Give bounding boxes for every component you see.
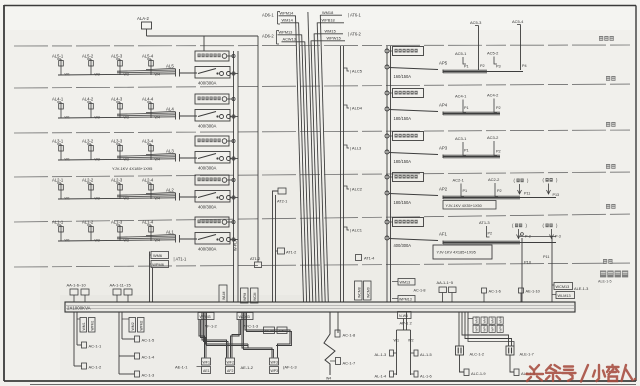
svg-text:WPM6: WPM6 <box>152 262 164 267</box>
svg-text:ALE-1-3: ALE-1-3 <box>574 286 588 291</box>
svg-text:WM8: WM8 <box>499 316 503 323</box>
fuse circle bottom AP4 <box>385 107 389 111</box>
svg-text:AC-1-5: AC-1-5 <box>142 338 155 343</box>
svg-text:AE-1-1: AE-1-1 <box>175 365 188 370</box>
svg-text:AP-1 2: AP-1 2 <box>400 321 413 326</box>
svg-text:AL1: AL1 <box>166 230 174 235</box>
svg-text:| AT1-1: | AT1-1 <box>174 257 188 262</box>
svg-text:WPM14: WPM14 <box>280 11 295 16</box>
svg-text:AA-1-1~5: AA-1-1~5 <box>437 280 454 285</box>
floor label 三层 <box>606 164 610 169</box>
svg-text:AL4-4: AL4-4 <box>142 97 154 102</box>
svg-text:WPM13: WPM13 <box>399 298 412 302</box>
cable tag WCM3 <box>237 313 253 320</box>
svg-text:W1: W1 <box>394 339 400 343</box>
svg-text:W4: W4 <box>155 197 160 201</box>
cable note box AP2 (YJV-1KV 4X35+1X50) <box>443 201 496 210</box>
breaker AL4 <box>195 110 230 122</box>
cable tag WCM9 (rotated) <box>364 281 372 300</box>
svg-text:AL1-4: AL1-4 <box>142 220 154 225</box>
cable tag WPM13 <box>398 296 415 303</box>
svg-text:WCM9: WCM9 <box>367 287 371 298</box>
feeder ALA-2 box <box>142 22 152 29</box>
svg-text:180/150A: 180/150A <box>394 200 412 205</box>
svg-text:AL-1-3: AL-1-3 <box>375 352 387 357</box>
breaker AL1 <box>195 233 230 245</box>
svg-text:400/300A: 400/300A <box>198 81 217 86</box>
svg-text:AA-1-11~15: AA-1-11~15 <box>110 283 132 288</box>
svg-text:180/150A: 180/150A <box>394 159 412 164</box>
svg-text:400/300A: 400/300A <box>198 124 217 129</box>
meter box AF1 (节管暗敷) <box>393 218 424 227</box>
svg-text:AT2-1: AT2-1 <box>277 199 287 204</box>
wire bundle AP4 <box>443 113 500 115</box>
svg-text:AL-1-5: AL-1-5 <box>420 352 432 357</box>
fuse circle top AP5 <box>385 49 389 53</box>
svg-text:WLM13: WLM13 <box>558 294 571 298</box>
fuse circle bottom AP3 <box>385 150 389 154</box>
svg-text:P1: P1 <box>464 149 469 153</box>
meter box AL3 (穿管暗敷口) <box>195 136 229 146</box>
svg-text:AL3-4: AL3-4 <box>142 139 154 144</box>
central riser bundle (9 feeders) <box>296 16 304 303</box>
cable tag WPM3 <box>198 313 214 320</box>
fuse circle bottom AP5 <box>385 65 389 69</box>
svg-text:AF1: AF1 <box>439 232 447 237</box>
svg-text:AD6-2: AD6-2 <box>262 34 274 39</box>
floor divider line 4 <box>14 172 634 177</box>
floor divider line 6 <box>14 263 634 267</box>
tap box AT1-2 mid <box>278 248 285 254</box>
wire AL5 to breaker <box>180 72 198 74</box>
fuse circle bottom AF1 <box>385 236 389 240</box>
feeder bundle basement right <box>458 312 460 331</box>
floor label 二层 <box>606 204 610 209</box>
svg-text:AC-1-3: AC-1-3 <box>142 373 155 378</box>
svg-text:P3: P3 <box>496 65 501 69</box>
svg-text:AC4-2: AC4-2 <box>487 93 499 98</box>
svg-text:AC5-3: AC5-3 <box>470 20 482 25</box>
tap box AE-1-10 <box>519 288 524 293</box>
svg-text:AC-1-8: AC-1-8 <box>414 289 426 293</box>
terminal box AT1-2 <box>255 262 262 268</box>
svg-text:AL5: AL5 <box>166 64 174 69</box>
svg-text:AC-1-2: AC-1-2 <box>89 365 102 370</box>
wire bus of AL1 <box>58 240 175 241</box>
svg-text:160/150A: 160/150A <box>394 74 412 79</box>
svg-text:ALC-1-2: ALC-1-2 <box>470 352 485 357</box>
wire ALA-2 horizontal <box>147 35 259 37</box>
svg-text:AC-1-7: AC-1-7 <box>343 361 356 366</box>
svg-text:AL1-1: AL1-1 <box>52 220 64 225</box>
svg-text:AL4-3: AL4-3 <box>111 97 123 102</box>
svg-text:WM1: WM1 <box>82 322 86 330</box>
branch AL-1-4 <box>393 373 397 375</box>
svg-text:AC4-1: AC4-1 <box>455 94 467 99</box>
cable tag WP4 <box>277 327 287 334</box>
svg-text:W4: W4 <box>326 377 331 381</box>
svg-text:WM13: WM13 <box>400 281 411 285</box>
svg-text:AE1: AE1 <box>203 369 210 373</box>
svg-text:AL3-3: AL3-3 <box>111 139 123 144</box>
svg-text:AP5: AP5 <box>439 61 448 66</box>
floor divider line 5 <box>14 214 634 222</box>
junction on riser AL3 <box>232 139 235 142</box>
cable label WPM6 <box>151 261 169 268</box>
nest wiring AF-1-2 <box>199 320 205 358</box>
svg-text:WM6: WM6 <box>153 253 162 258</box>
floor label 地下一层 <box>600 271 606 278</box>
svg-text:ALE-1-7: ALE-1-7 <box>520 352 534 357</box>
cable tag WCM8 (rotated) <box>355 281 363 300</box>
wire bus of AL5 <box>58 74 175 75</box>
breaker AL3 <box>195 152 230 164</box>
cable tag WPM2 (rotated) <box>138 318 145 333</box>
svg-text:WCM3: WCM3 <box>239 315 250 319</box>
svg-text:AC3-1: AC3-1 <box>455 136 467 141</box>
wire bus of AL3 <box>58 159 175 160</box>
svg-text:AA-1-6~10: AA-1-6~10 <box>67 283 87 288</box>
branch AC-1-1 <box>77 344 82 346</box>
branch AC-1-8 <box>337 312 339 333</box>
svg-text:P2: P2 <box>488 232 493 236</box>
svg-text:W2: W2 <box>408 339 414 343</box>
terminal WF2/AF2 <box>226 358 235 365</box>
breaker AL5 <box>195 67 230 79</box>
svg-text:YJV-1KV 4X185+1X95: YJV-1KV 4X185+1X95 <box>112 166 153 171</box>
hook to AT2-1 box <box>273 191 279 195</box>
svg-text:P2: P2 <box>496 150 501 154</box>
wire bundle AP5 <box>443 71 523 73</box>
svg-text:WPW15: WPW15 <box>327 36 341 41</box>
svg-text:WM18: WM18 <box>322 10 333 15</box>
breaker blade AP5 <box>389 68 438 70</box>
svg-text:AL-1-6: AL-1-6 <box>420 374 432 379</box>
branch AL-1-6 <box>411 373 415 375</box>
cable tag WLM13 <box>556 292 575 299</box>
svg-text:AT1-2: AT1-2 <box>250 256 260 261</box>
cable tag WPM1 (rotated) <box>89 318 96 333</box>
svg-text:AL4-1: AL4-1 <box>52 97 64 102</box>
svg-text:AE-1-10: AE-1-10 <box>526 289 541 294</box>
svg-text:180/150A: 180/150A <box>394 116 412 121</box>
wire AL4 to breaker <box>180 115 198 117</box>
svg-text:WCM: WCM <box>253 292 257 301</box>
svg-text:P1: P1 <box>464 106 469 110</box>
svg-text:P2: P2 <box>497 189 502 193</box>
wire AL2 to breaker <box>180 196 198 198</box>
tap box AT1-4 <box>356 255 362 261</box>
wire AF1 tail <box>520 236 556 238</box>
svg-text:AC5-1: AC5-1 <box>455 51 467 56</box>
cable label WM6 <box>151 252 169 259</box>
svg-text:AC5-2: AC5-2 <box>487 51 499 56</box>
svg-text:YJV-1KV 4X185+1X95: YJV-1KV 4X185+1X95 <box>437 250 476 255</box>
floor tap ALL3 <box>344 145 350 148</box>
wire bundle AF1 <box>443 242 556 244</box>
svg-text:P2: P2 <box>480 64 485 68</box>
svg-text:ALE-1-5: ALE-1-5 <box>598 280 612 284</box>
svg-text:P1: P1 <box>463 189 468 193</box>
meter box AL2 (穿管暗敷口) <box>195 175 229 185</box>
cable tag WM1 (rotated) <box>80 318 87 333</box>
svg-text:AL2-3: AL2-3 <box>111 178 123 183</box>
floor divider line 2 <box>14 84 634 88</box>
svg-text:400/300A: 400/300A <box>198 166 217 171</box>
wire ALA-2 drop to AL5 meter box <box>203 36 205 51</box>
svg-text:AL-1-4: AL-1-4 <box>375 374 388 379</box>
svg-text:P11: P11 <box>524 192 530 196</box>
branch AC-1-2 <box>74 365 82 367</box>
svg-text:WP7: WP7 <box>491 325 495 332</box>
svg-text:WM7: WM7 <box>491 316 495 323</box>
meter box AL4 (穿管暗敷口) <box>195 94 229 104</box>
transformer ALE-1-7 <box>462 331 509 346</box>
svg-text:WPM1: WPM1 <box>91 320 95 330</box>
svg-text:WLM: WLM <box>222 292 226 300</box>
border frame <box>3 5 5 381</box>
cable tag grid (WM5..WP8) <box>473 317 479 324</box>
wire P11 riser <box>551 238 553 302</box>
svg-text:AP3: AP3 <box>439 146 448 151</box>
riser AL column pair <box>340 46 342 302</box>
meter box AP3 (节管暗敷) <box>393 132 424 141</box>
riser pair right block <box>386 46 388 302</box>
meter box AP4 (节管暗敷) <box>393 89 424 98</box>
svg-text:W4: W4 <box>155 158 160 162</box>
svg-text:AC-1-4: AC-1-4 <box>142 355 155 360</box>
svg-text:AL2-2: AL2-2 <box>82 178 94 183</box>
svg-text:AD6-1: AD6-1 <box>262 13 274 18</box>
svg-text:| ALC2: | ALC2 <box>350 187 363 192</box>
breaker blade AP4 <box>389 110 438 112</box>
svg-text:WM5: WM5 <box>475 316 479 323</box>
scan shading <box>40 170 600 310</box>
fuse circle top AF1 <box>385 220 389 224</box>
svg-text:P10: P10 <box>524 260 532 265</box>
svg-text:AL4-2: AL4-2 <box>82 97 94 102</box>
wire bundle AP3 <box>443 156 500 158</box>
wire ALA-2 riser down <box>257 36 259 262</box>
floor tap ALD4 <box>344 105 350 108</box>
svg-text:AL3-1: AL3-1 <box>52 139 64 144</box>
svg-text:W4: W4 <box>155 239 160 243</box>
svg-text:| ALD4: | ALD4 <box>350 106 363 111</box>
svg-text:WM2: WM2 <box>131 322 135 330</box>
junction on riser AL5 <box>232 54 235 57</box>
cable note box AF1 (YJV-1KV 4X185+1X95) <box>433 245 492 259</box>
svg-text:400/300A: 400/300A <box>394 243 412 248</box>
svg-text:WCM13: WCM13 <box>556 285 570 289</box>
branch AC-1-3 <box>119 373 135 375</box>
transformer ALC-1-2 <box>458 331 460 346</box>
floor label 五层 <box>606 76 610 81</box>
wire bus of AL4 <box>58 117 175 118</box>
svg-text:YJV-1KV 4X35+1X50: YJV-1KV 4X35+1X50 <box>446 204 482 208</box>
watermark 头条号/小客人 (red) <box>527 365 637 382</box>
riser WPL pair (left breaker bus) <box>233 51 235 302</box>
svg-text:| ALL3: | ALL3 <box>350 146 362 151</box>
meter box AP5 (节管暗敷) <box>393 47 424 56</box>
svg-text:| AT6-1: | AT6-1 <box>348 13 362 18</box>
svg-text:AL2-1: AL2-1 <box>52 178 64 183</box>
wire P10 riser <box>521 238 523 302</box>
svg-text:WF1: WF1 <box>203 361 210 365</box>
svg-text:| ALC1: | ALC1 <box>350 228 363 233</box>
cable tag WCM13 <box>554 283 573 290</box>
meter box AL1 (穿管暗敷口) <box>195 217 229 227</box>
svg-text:WPM13: WPM13 <box>279 30 293 35</box>
svg-text:AL1-2: AL1-2 <box>82 220 94 225</box>
branch ALC-1-9 <box>460 355 465 372</box>
svg-text:AC-1-6: AC-1-6 <box>489 289 501 294</box>
svg-text:P11: P11 <box>543 255 549 259</box>
svg-text:W4: W4 <box>155 73 160 77</box>
svg-text:WCM8: WCM8 <box>358 287 362 298</box>
branch AL-1-5 <box>411 352 415 354</box>
svg-text:AC2-2: AC2-2 <box>488 177 500 182</box>
svg-text:P4: P4 <box>522 64 527 68</box>
riser AT2-1 pair <box>272 195 274 302</box>
fuse circle top AP4 <box>385 91 389 95</box>
svg-text:WP3: WP3 <box>271 369 279 373</box>
branch AC-1-4 <box>119 355 135 357</box>
svg-text:W-PLA: W-PLA <box>234 239 238 251</box>
wire bundle AP2 <box>443 197 556 199</box>
floor tap ALC2 <box>344 186 350 189</box>
feeder group AC-1-1/AC-1-2 <box>73 312 75 366</box>
svg-text:AL5-2: AL5-2 <box>82 54 94 59</box>
feeder AP-1-2 <box>398 312 412 319</box>
svg-text:WF2: WF2 <box>227 361 234 365</box>
svg-text:WPM2: WPM2 <box>140 320 144 330</box>
svg-text:AL3-2: AL3-2 <box>82 139 94 144</box>
svg-text:WP5: WP5 <box>475 325 479 332</box>
svg-text:AP2: AP2 <box>439 187 448 192</box>
svg-text:P2: P2 <box>496 106 501 110</box>
svg-text:WP6: WP6 <box>483 325 487 332</box>
svg-text:AE-1-2: AE-1-2 <box>241 365 254 370</box>
fuse circle bottom AP2 <box>385 191 389 195</box>
meter box AP2 (节管暗敷) <box>393 173 424 182</box>
riser pair WM6 <box>149 252 151 303</box>
svg-text:WF3: WF3 <box>271 361 278 365</box>
svg-text:AC5-4: AC5-4 <box>512 19 524 24</box>
svg-text:AL1-3: AL1-3 <box>111 220 123 225</box>
branch ALE-1-8 <box>510 355 514 372</box>
wire ALA-2 down <box>146 29 148 36</box>
svg-text:AP4: AP4 <box>439 103 448 108</box>
fuse circle top AP3 <box>385 134 389 138</box>
svg-text:AL5-3: AL5-3 <box>111 54 123 59</box>
wire W1 <box>396 330 398 375</box>
svg-text:AC-1-8: AC-1-8 <box>343 333 356 338</box>
nest wiring AFC-1-3 <box>231 320 240 358</box>
floor label 四层 <box>606 122 610 127</box>
svg-text:WPB18: WPB18 <box>322 18 335 23</box>
svg-text:2X1000KVA: 2X1000KVA <box>67 306 91 311</box>
breaker blade AP2 <box>389 194 438 196</box>
svg-text:AL3: AL3 <box>166 149 174 154</box>
breaker blade AF1 <box>389 239 438 241</box>
branch AL-1-3 <box>393 352 397 354</box>
floor divider line 3 <box>14 130 634 133</box>
riser tags W-PLA column (rotated) <box>241 288 249 303</box>
svg-text:AC2-1: AC2-1 <box>453 178 465 183</box>
floor divider line 1 <box>14 45 634 46</box>
cable tag WM2 (rotated) <box>129 318 136 333</box>
svg-text:WM6: WM6 <box>483 316 487 323</box>
svg-text:WP8: WP8 <box>499 325 503 332</box>
svg-text:AL5-1: AL5-1 <box>52 54 64 59</box>
floor label 一层 <box>603 259 607 264</box>
svg-text:WPM: WPM <box>243 293 247 301</box>
svg-text:| ALC5: | ALC5 <box>350 69 363 74</box>
svg-text:P1: P1 <box>464 65 469 69</box>
svg-text:AT1-4: AT1-4 <box>364 256 375 261</box>
svg-text:ALA-2: ALA-2 <box>137 16 150 21</box>
svg-text:P13: P13 <box>553 193 560 197</box>
svg-text:AL2: AL2 <box>166 188 174 193</box>
wire bus of AL2 <box>58 198 175 199</box>
svg-text:AL2-4: AL2-4 <box>142 178 154 183</box>
breaker AL2 <box>195 191 230 203</box>
branch AC-1-5 <box>122 338 135 340</box>
tap box AC-1-6 <box>482 288 487 293</box>
svg-text:400/300A: 400/300A <box>198 247 217 252</box>
terminal WF1/AE1 <box>202 358 211 365</box>
svg-text:AL5-4: AL5-4 <box>142 54 154 59</box>
svg-text:AT1-3: AT1-3 <box>479 220 490 225</box>
floor tap ALC5 <box>344 68 350 71</box>
riser tag WLM (rotated) <box>219 285 227 302</box>
cable tag WCM4 <box>264 327 275 334</box>
svg-text:400/300A: 400/300A <box>198 205 217 210</box>
terminal WF3/WP3 <box>270 358 279 365</box>
svg-text:ACW13: ACW13 <box>283 37 296 42</box>
fuse circle top AP2 <box>385 175 389 179</box>
spare cable AC-1-7 (zigzag) <box>324 312 335 375</box>
svg-text:(AF-1-3: (AF-1-3 <box>283 365 297 370</box>
svg-text:ALC-1-9: ALC-1-9 <box>471 371 486 376</box>
svg-text:WM14: WM14 <box>282 18 294 23</box>
junction on riser AL2 <box>232 178 235 181</box>
floor tap ALC1 <box>344 227 350 230</box>
svg-text:AC3-2: AC3-2 <box>487 135 499 140</box>
svg-text:AF2: AF2 <box>227 369 233 373</box>
svg-text:WM15: WM15 <box>325 29 336 34</box>
main busbar 2X1000KVA <box>65 302 575 312</box>
svg-text:AC-1-1: AC-1-1 <box>89 344 102 349</box>
feeder group AC-1-3/4/5 <box>118 312 120 374</box>
junction on riser AL1 <box>232 220 235 223</box>
breaker blade AP3 <box>389 153 438 155</box>
wire AL3 to breaker <box>180 157 198 159</box>
svg-text:AL4: AL4 <box>166 107 174 112</box>
svg-text:| AT6-2: | AT6-2 <box>348 32 362 37</box>
floor label 屋顶层 <box>599 36 603 41</box>
wire AL1 to breaker <box>180 238 198 240</box>
wire W2 <box>410 330 412 375</box>
meter box AL5 (穿管暗敷口) <box>195 51 229 61</box>
junction on riser AL4 <box>232 97 235 100</box>
svg-text:AT1-2: AT1-2 <box>286 250 296 255</box>
svg-text:W4: W4 <box>155 116 160 120</box>
cable tag WM13 <box>398 279 415 286</box>
